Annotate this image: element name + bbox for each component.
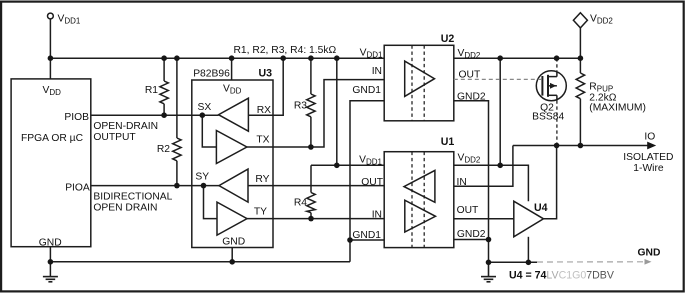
wire VDD1 lead — [49, 19, 51, 58]
node VDD1/FPGA — [48, 55, 54, 61]
wire U3 VDD stub — [231, 58, 233, 80]
resistor RPUP — [576, 58, 584, 145]
svg-text:U1: U1 — [441, 136, 455, 148]
node R1 top — [161, 55, 167, 61]
node R4 bottom TY — [308, 216, 314, 222]
svg-text:1-Wire: 1-Wire — [633, 163, 664, 174]
IO arrowhead — [647, 142, 656, 150]
wire U4 output to IO — [544, 146, 557, 219]
svg-text:BSS84: BSS84 — [532, 112, 564, 123]
svg-text:OUT: OUT — [361, 177, 383, 188]
wire VDD1 rail — [50, 57, 384, 59]
wire RX input tie to VDD1 — [248, 58, 283, 115]
node VDD2/U1 — [497, 55, 503, 61]
svg-text:R1, R2, R3, R4: 1.5kΩ: R1, R2, R3, R4: 1.5kΩ — [234, 45, 337, 56]
svg-text:RX: RX — [257, 105, 271, 116]
svg-text:GND1: GND1 — [352, 85, 381, 96]
node RPUP top — [578, 55, 584, 61]
resistor R3 — [307, 58, 315, 147]
op-amp TX buffer — [216, 131, 247, 164]
svg-text:OUT: OUT — [459, 70, 481, 81]
node R4 rail — [334, 55, 340, 61]
svg-text:TX: TX — [256, 134, 269, 145]
FPGA box — [11, 79, 91, 247]
wire GND2 rail — [489, 261, 538, 263]
U3 box — [192, 80, 273, 248]
node R1 bottom PIOB — [161, 112, 167, 118]
wire TY to U1 IN — [247, 218, 384, 220]
node GND1 rail left — [48, 259, 54, 265]
wire U1 OUT to U4 — [454, 218, 514, 220]
wire U4 GND stub — [527, 237, 529, 262]
wire PIOA net — [91, 185, 219, 187]
svg-text:IN: IN — [457, 177, 467, 188]
svg-text:TY: TY — [254, 207, 267, 218]
isolation barrier U1 — [411, 152, 413, 248]
svg-text:SY: SY — [195, 172, 209, 183]
node GND1/U1 — [347, 237, 353, 243]
node GND2 U1 — [486, 237, 492, 243]
terminal VDD1 — [48, 13, 54, 19]
node Q2 top — [554, 55, 560, 61]
wire PIOB net — [91, 114, 219, 116]
node RX tie — [280, 55, 286, 61]
wire U1 GND2 — [454, 239, 489, 241]
wire VDD2 down to U1 — [499, 58, 501, 165]
terminal VDD2 diamond — [573, 13, 587, 28]
svg-text:PIOA: PIOA — [65, 183, 90, 194]
wire U1 VDD2 to U4 — [454, 165, 529, 201]
svg-text:IN: IN — [372, 210, 382, 221]
svg-text:GND1: GND1 — [352, 230, 381, 241]
svg-text:BIDIRECTIONAL: BIDIRECTIONAL — [93, 191, 172, 202]
wire SY to TY input — [204, 186, 218, 219]
svg-text:GND2: GND2 — [457, 91, 486, 102]
node IO/RPUP — [578, 143, 584, 149]
svg-text:IO: IO — [644, 131, 655, 142]
svg-text:GND: GND — [39, 237, 62, 248]
svg-text:IN: IN — [372, 66, 382, 77]
wire GND1 rail — [50, 261, 350, 263]
wire RY to U1 OUT — [248, 185, 384, 187]
node SX — [200, 112, 206, 118]
op-amp TY buffer — [217, 202, 247, 235]
wire TX to U2 IN — [247, 80, 384, 147]
op-amp U2 buffer — [405, 61, 435, 96]
wire FPGA VDD stub — [49, 58, 51, 79]
op-amp U1 buffer A — [404, 170, 435, 202]
node R2 bottom PIOA — [174, 183, 180, 189]
wire U1 VDD1 — [311, 164, 384, 166]
node U3 VDD — [229, 55, 235, 61]
node R3 bottom TX — [308, 144, 314, 150]
svg-text:OPEN-DRAIN: OPEN-DRAIN — [93, 121, 158, 132]
wire GND2 dashed to arrow — [537, 261, 643, 263]
node U3 GND rail — [229, 259, 235, 265]
svg-text:RY: RY — [255, 174, 269, 185]
resistor R1 — [160, 58, 168, 115]
transistor Q2 — [536, 71, 566, 101]
wire diamond lead — [579, 28, 581, 58]
wire Q2 drain dashed top — [556, 58, 558, 71]
svg-text:FPGA OR µC: FPGA OR µC — [21, 133, 84, 144]
svg-text:U3: U3 — [258, 68, 272, 80]
node IO/Q2 — [554, 143, 560, 149]
svg-text:U2: U2 — [441, 33, 455, 45]
svg-text:ISOLATED: ISOLATED — [623, 152, 673, 163]
GND arrowhead gray — [645, 259, 652, 265]
node R4 top VDD1 — [334, 163, 340, 169]
wire U2 GND2 down — [454, 101, 489, 262]
svg-text:R2: R2 — [157, 144, 170, 155]
wire GND1 vertical — [350, 101, 384, 262]
svg-text:U4: U4 — [534, 202, 548, 214]
isolation barrier U2 — [411, 45, 413, 121]
svg-text:OPEN DRAIN: OPEN DRAIN — [93, 202, 157, 213]
op-amp U1 buffer B — [405, 200, 436, 232]
svg-text:OUTPUT: OUTPUT — [93, 132, 136, 143]
wire U1 GND1 — [350, 239, 384, 241]
U2 box — [384, 45, 454, 121]
wire IO line — [513, 145, 649, 147]
svg-text:R3: R3 — [294, 100, 307, 111]
wire VDD2 rail — [454, 57, 581, 59]
wire SX to TX input — [202, 115, 216, 147]
svg-text:(MAXIMUM): (MAXIMUM) — [589, 103, 646, 114]
node U1 VDD2 — [497, 163, 503, 169]
node GND2 rail — [486, 260, 492, 266]
resistor R2 — [173, 58, 181, 185]
node SY — [201, 183, 207, 189]
svg-text:SX: SX — [198, 102, 212, 113]
svg-text:R4: R4 — [294, 197, 307, 208]
node R2 top — [174, 55, 180, 61]
svg-text:GND: GND — [222, 236, 245, 247]
svg-text:OUT: OUT — [457, 205, 479, 216]
ground symbol right — [481, 262, 496, 282]
resistor R4 — [307, 58, 337, 218]
op-amp RX buffer — [219, 98, 249, 131]
svg-text:U4 = 74LVC1G07DBV: U4 = 74LVC1G07DBV — [509, 270, 615, 282]
ground symbol left — [43, 277, 58, 282]
svg-text:R1: R1 — [145, 85, 158, 96]
svg-text:GND2: GND2 — [457, 229, 486, 240]
node R3 top — [308, 55, 314, 61]
wire U1 IN from IO — [454, 146, 513, 187]
wire Q2 source dashed bottom — [556, 100, 558, 145]
wire Q2 gate dashed from U2 OUT — [454, 78, 542, 80]
U1 box — [384, 152, 454, 248]
svg-text:PIOB: PIOB — [64, 112, 89, 123]
svg-text:P82B96: P82B96 — [193, 69, 230, 80]
wire U3 GND stub — [231, 248, 233, 262]
node U4 GND rail — [526, 260, 532, 266]
svg-text:GND: GND — [638, 247, 661, 258]
wire FPGA GND stub — [49, 247, 51, 277]
op-amp RY buffer — [219, 169, 248, 202]
op-amp U4 — [514, 201, 544, 237]
